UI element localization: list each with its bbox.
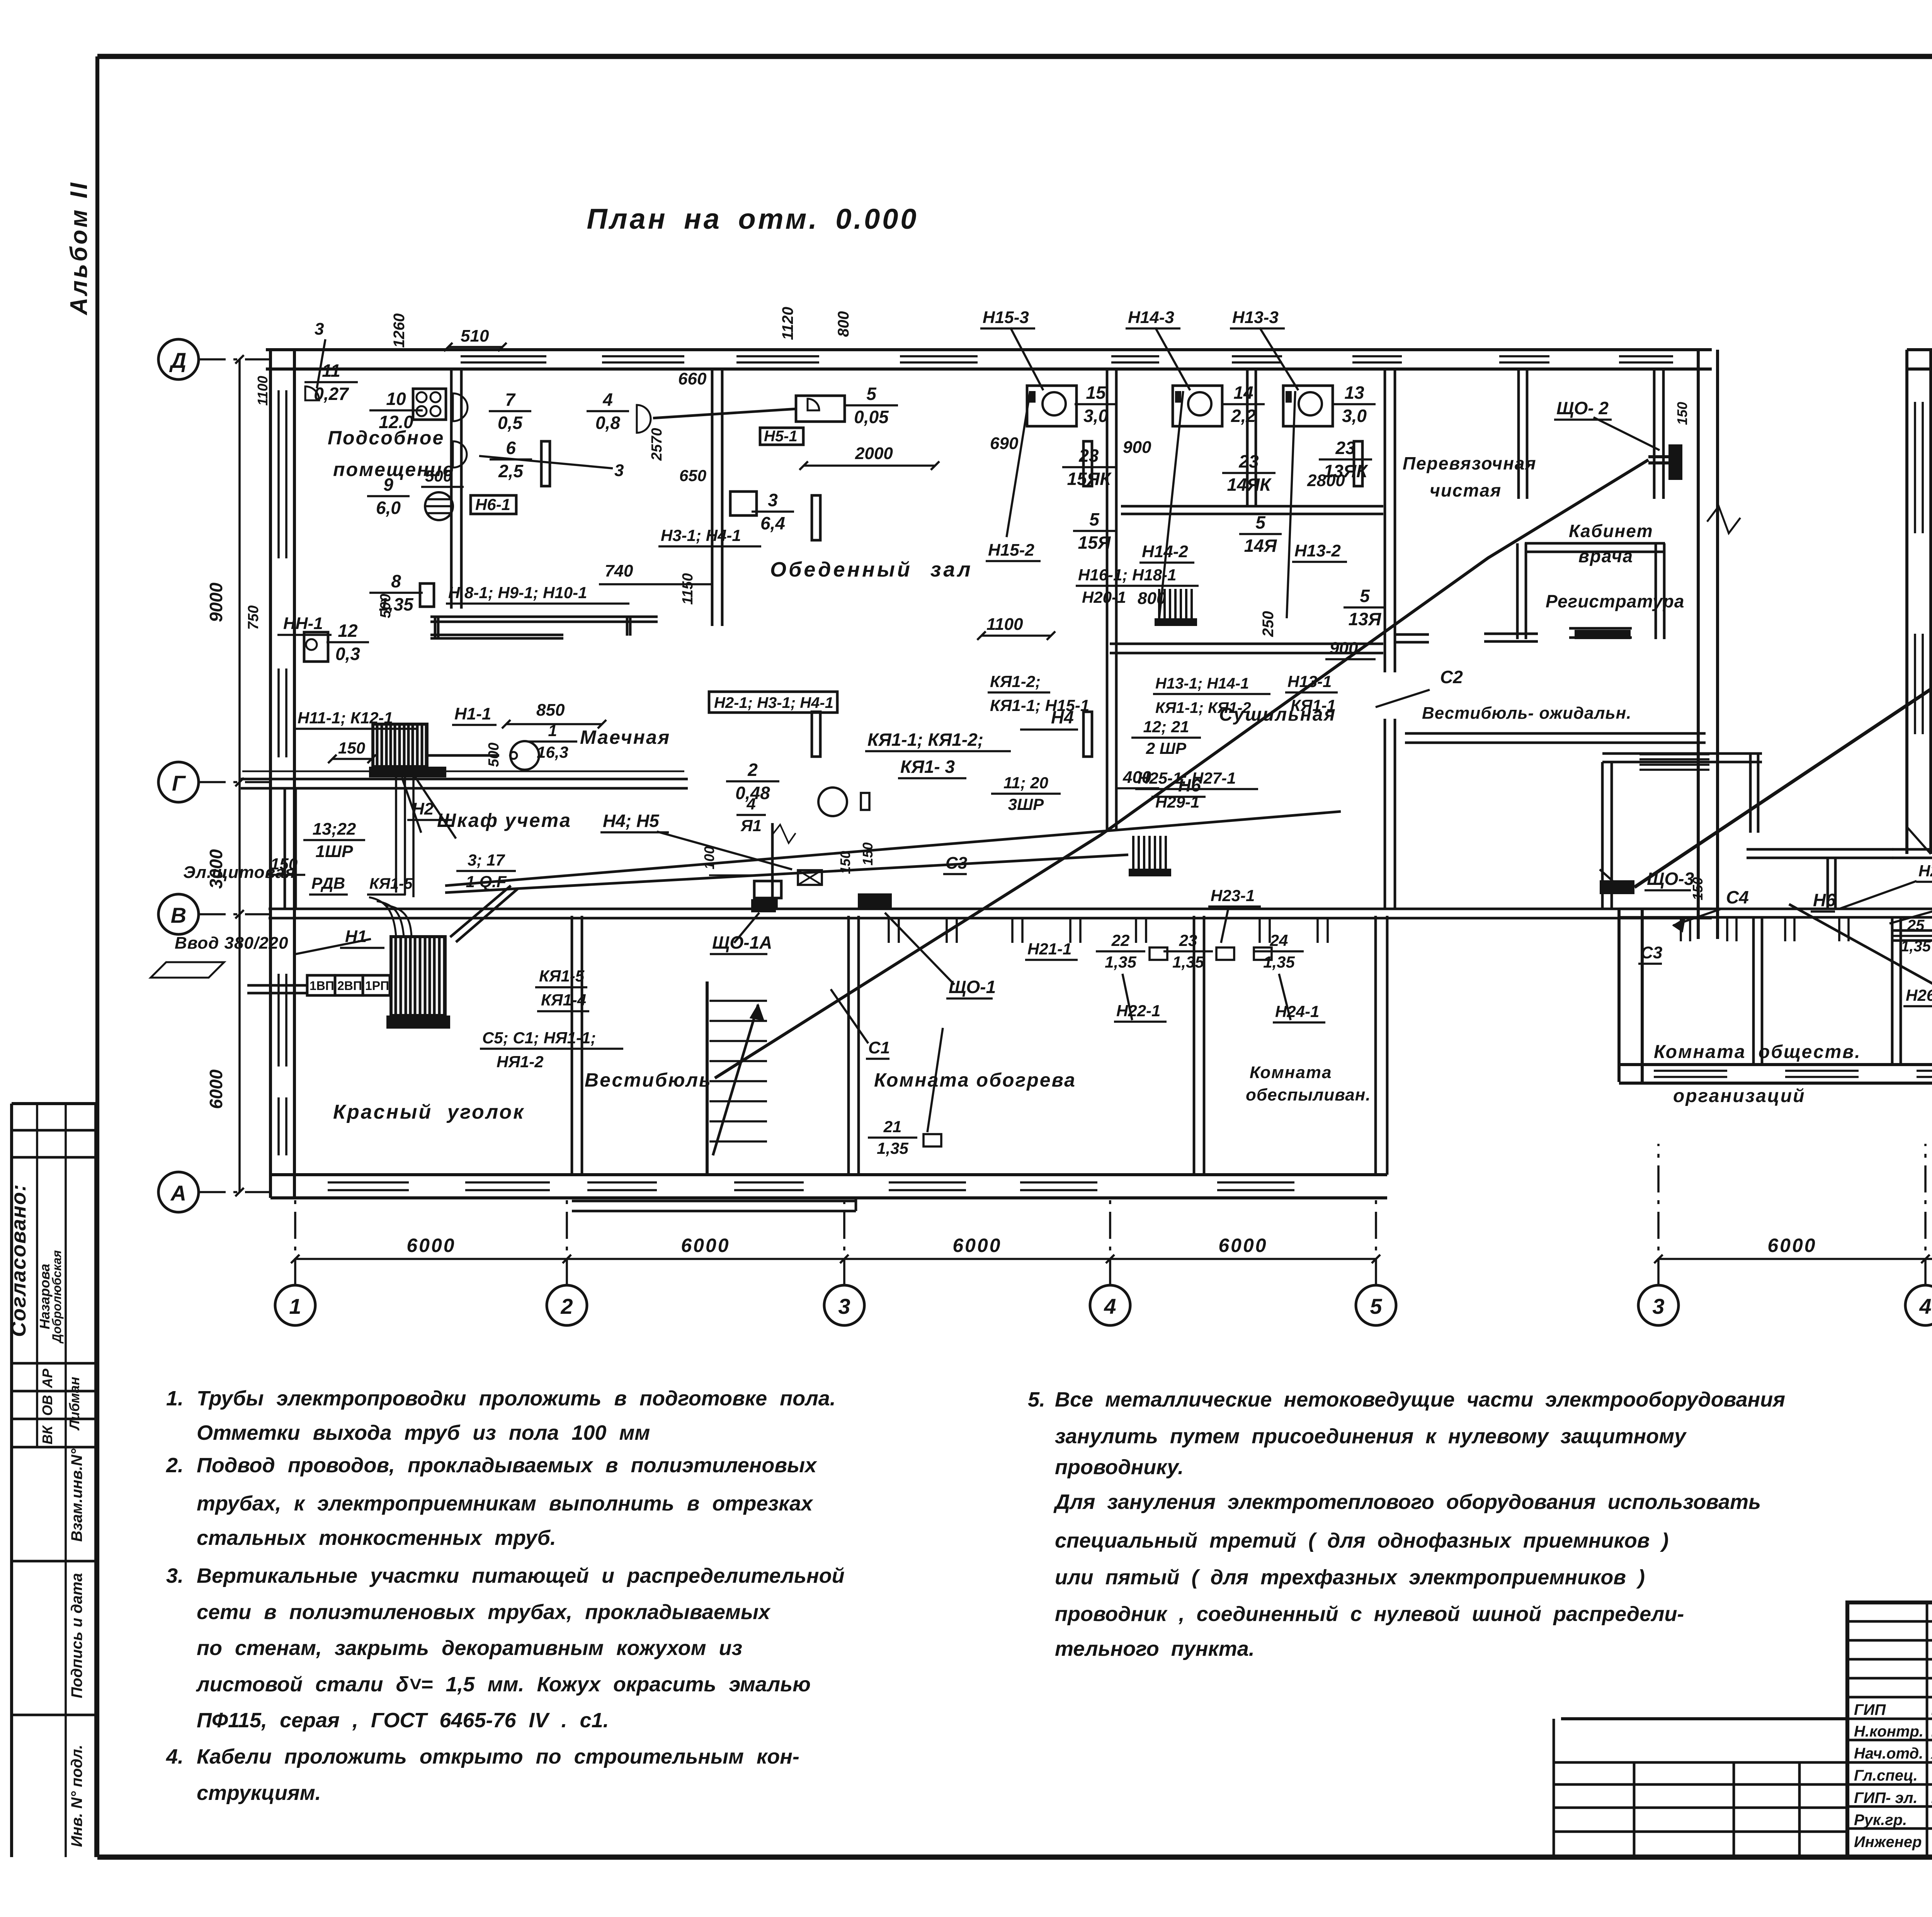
svg-text:500: 500 <box>486 743 502 767</box>
svg-text:Н25-1; Н27-1: Н25-1; Н27-1 <box>1138 769 1236 787</box>
svg-text:С2: С2 <box>1440 667 1463 687</box>
svg-text:750: 750 <box>245 606 262 630</box>
svg-text:6000: 6000 <box>206 1069 226 1109</box>
svg-text:Трубы электропроводки пролож: Трубы электропроводки проложить в подгот… <box>197 1387 836 1410</box>
svg-text:2800: 2800 <box>1307 471 1345 490</box>
svg-text:800: 800 <box>835 311 852 337</box>
svg-text:5: 5 <box>1360 586 1370 606</box>
svg-text:23: 23 <box>1238 451 1259 471</box>
svg-text:С1: С1 <box>868 1038 890 1057</box>
svg-text:Комната: Комната <box>1250 1063 1332 1082</box>
svg-text:Обеденный зал: Обеденный зал <box>770 558 973 581</box>
svg-text:1,35: 1,35 <box>1901 938 1931 955</box>
svg-text:23: 23 <box>1335 438 1355 458</box>
svg-text:Кабинет: Кабинет <box>1569 521 1653 541</box>
svg-text:1ВП: 1ВП <box>310 979 334 993</box>
svg-text:или пятый ( для трехфазн: или пятый ( для трехфазных электроприемн… <box>1055 1566 1645 1589</box>
svg-text:Вертикальные участки питающе: Вертикальные участки питающей и распреде… <box>197 1564 845 1587</box>
svg-text:Н 8-1; Н9-1; Н10-1: Н 8-1; Н9-1; Н10-1 <box>448 583 587 602</box>
svg-text:проводнику.: проводнику. <box>1055 1456 1184 1479</box>
svg-text:11: 11 <box>322 361 340 381</box>
svg-text:100: 100 <box>701 846 717 869</box>
svg-text:3,0: 3,0 <box>1342 406 1367 426</box>
svg-text:650: 650 <box>679 466 706 485</box>
svg-text:900: 900 <box>1330 639 1358 658</box>
svg-text:500: 500 <box>425 467 452 485</box>
svg-text:16,3: 16,3 <box>537 743 568 761</box>
svg-text:150: 150 <box>338 739 365 757</box>
svg-text:КЯ1-1; КЯ1-2: КЯ1-1; КЯ1-2 <box>1155 699 1251 716</box>
svg-text:5: 5 <box>866 384 877 404</box>
svg-text:Н22-1: Н22-1 <box>1116 1002 1160 1020</box>
svg-text:Взам.инв.N°: Взам.инв.N° <box>68 1448 85 1542</box>
svg-text:1РП: 1РП <box>365 979 389 993</box>
svg-text:1,35: 1,35 <box>1105 953 1136 971</box>
svg-text:Комната обществ.: Комната обществ. <box>1654 1042 1861 1062</box>
svg-text:Регистратура: Регистратура <box>1546 591 1685 611</box>
svg-text:Н3-1; Н4-1: Н3-1; Н4-1 <box>661 526 741 544</box>
svg-text:1120: 1120 <box>779 307 796 340</box>
svg-text:1.: 1. <box>166 1387 184 1410</box>
svg-text:струкциям.: струкциям. <box>197 1781 321 1805</box>
svg-text:13Я: 13Я <box>1349 609 1382 629</box>
svg-text:КЯ1- 3: КЯ1- 3 <box>900 757 955 777</box>
svg-text:Н15-3: Н15-3 <box>983 308 1029 327</box>
svg-text:КЯ1-5: КЯ1-5 <box>369 875 413 892</box>
svg-text:3; 17: 3; 17 <box>468 851 505 869</box>
svg-text:ВК: ВК <box>39 1425 55 1444</box>
svg-text:1: 1 <box>548 721 557 740</box>
svg-text:ГИП: ГИП <box>1854 1701 1886 1718</box>
svg-text:0,3: 0,3 <box>335 644 360 664</box>
svg-text:Подвод проводов, прокладыва: Подвод проводов, прокладываемых в полиэт… <box>197 1454 817 1477</box>
svg-text:С3: С3 <box>1641 943 1662 962</box>
svg-text:ЩО-1: ЩО-1 <box>949 977 996 997</box>
svg-text:Добролюбская: Добролюбская <box>50 1250 64 1344</box>
svg-text:сети в полиэтиленовых тру: сети в полиэтиленовых трубах, прокладыва… <box>197 1601 771 1624</box>
svg-text:стальных тонкостенных труб: стальных тонкостенных труб. <box>197 1526 556 1550</box>
svg-text:Рук.гр.: Рук.гр. <box>1854 1812 1907 1829</box>
svg-text:занулить путем присоединен: занулить путем присоединения к нулевому … <box>1055 1425 1687 1448</box>
svg-text:22: 22 <box>1111 931 1130 949</box>
svg-text:2,5: 2,5 <box>498 461 524 481</box>
svg-text:Н6-1: Н6-1 <box>475 495 510 514</box>
svg-text:3,0: 3,0 <box>1083 406 1108 426</box>
svg-text:4.: 4. <box>166 1745 184 1768</box>
svg-text:Н13-1: Н13-1 <box>1287 672 1332 691</box>
svg-text:3.: 3. <box>166 1564 184 1587</box>
svg-text:организаций: организаций <box>1673 1086 1805 1106</box>
svg-text:4: 4 <box>1919 1294 1931 1318</box>
svg-text:14: 14 <box>1233 383 1253 403</box>
svg-text:Гл.спец.: Гл.спец. <box>1854 1767 1918 1784</box>
svg-text:ЩО-3: ЩО-3 <box>1647 869 1694 889</box>
svg-text:ЩО- 2: ЩО- 2 <box>1556 398 1609 418</box>
svg-text:6000: 6000 <box>406 1235 456 1256</box>
svg-text:С4: С4 <box>1726 887 1749 907</box>
svg-text:А: А <box>170 1181 186 1205</box>
svg-text:КЯ1-1; КЯ1-2;: КЯ1-1; КЯ1-2; <box>867 730 983 750</box>
svg-text:Я1: Я1 <box>740 816 762 835</box>
svg-text:Н5-1: Н5-1 <box>764 428 798 445</box>
svg-text:12: 12 <box>338 621 358 641</box>
svg-text:1150: 1150 <box>680 573 696 605</box>
svg-text:3: 3 <box>315 320 324 338</box>
svg-text:150: 150 <box>860 842 876 866</box>
svg-text:12; 21: 12; 21 <box>1143 718 1189 736</box>
svg-text:13: 13 <box>1344 383 1364 403</box>
svg-text:специальный третий ( для: специальный третий ( для однофазных прие… <box>1055 1529 1668 1552</box>
svg-text:Согласовано:: Согласовано: <box>7 1184 30 1337</box>
svg-text:Н1-1: Н1-1 <box>454 704 491 723</box>
svg-text:25: 25 <box>1907 917 1925 934</box>
svg-text:9: 9 <box>383 475 393 495</box>
svg-text:Н6: Н6 <box>1813 890 1836 910</box>
svg-text:ГИП- эл.: ГИП- эл. <box>1854 1789 1918 1806</box>
svg-text:11; 20: 11; 20 <box>1003 774 1048 792</box>
svg-text:23: 23 <box>1078 446 1099 466</box>
svg-text:150: 150 <box>837 851 853 874</box>
svg-text:2: 2 <box>747 760 758 780</box>
svg-text:Инв. N° подл.: Инв. N° подл. <box>68 1745 85 1847</box>
svg-text:0,05: 0,05 <box>854 407 889 427</box>
svg-text:АР: АР <box>39 1368 55 1388</box>
svg-text:850: 850 <box>536 701 565 720</box>
svg-text:6000: 6000 <box>1767 1235 1816 1256</box>
svg-text:Н21-1: Н21-1 <box>1027 940 1071 958</box>
svg-text:ПФ115, серая , ГОСТ 646: ПФ115, серая , ГОСТ 6465-76 IV . с1. <box>197 1709 609 1732</box>
svg-text:Комната обогрева: Комната обогрева <box>874 1069 1076 1091</box>
svg-text:Н26-1: Н26-1 <box>1906 986 1932 1004</box>
svg-text:4: 4 <box>746 795 755 813</box>
svg-text:1260: 1260 <box>391 313 408 348</box>
svg-text:2,2: 2,2 <box>1231 406 1256 426</box>
svg-text:5: 5 <box>1370 1294 1382 1318</box>
svg-text:2.: 2. <box>166 1454 184 1477</box>
svg-text:5.: 5. <box>1028 1388 1045 1411</box>
svg-text:23: 23 <box>1179 931 1197 949</box>
svg-text:9000: 9000 <box>206 582 226 622</box>
svg-text:0,5: 0,5 <box>498 413 523 433</box>
svg-text:15Я: 15Я <box>1078 532 1111 553</box>
svg-text:250: 250 <box>1260 611 1277 637</box>
svg-text:КЯ1-1: КЯ1-1 <box>1291 696 1336 714</box>
svg-text:800: 800 <box>1138 589 1166 608</box>
svg-text:6,0: 6,0 <box>376 498 401 518</box>
svg-text:1100: 1100 <box>255 376 270 406</box>
svg-text:В: В <box>171 903 186 927</box>
svg-text:Н16-1; Н18-1: Н16-1; Н18-1 <box>1078 566 1176 584</box>
svg-text:С5; С1; НЯ1-1;: С5; С1; НЯ1-1; <box>482 1029 596 1047</box>
svg-text:2000: 2000 <box>855 444 893 463</box>
svg-text:Н13-1; Н14-1: Н13-1; Н14-1 <box>1155 675 1249 692</box>
svg-text:Маечная: Маечная <box>580 726 670 748</box>
svg-text:КЯ1-1; Н15-1: КЯ1-1; Н15-1 <box>990 696 1089 714</box>
svg-text:1,35: 1,35 <box>877 1139 908 1157</box>
svg-text:Альбом II: Альбом II <box>66 180 92 316</box>
svg-text:8: 8 <box>391 571 401 591</box>
svg-text:150: 150 <box>270 855 298 873</box>
svg-text:3: 3 <box>614 461 624 480</box>
svg-text:690: 690 <box>990 434 1019 453</box>
svg-text:ОВ: ОВ <box>39 1395 55 1416</box>
svg-text:чистая: чистая <box>1430 480 1502 500</box>
svg-text:Кабели проложить открыто: Кабели проложить открыто по строительным… <box>197 1745 799 1768</box>
svg-text:2: 2 <box>560 1294 573 1318</box>
svg-text:150: 150 <box>1690 877 1706 900</box>
svg-text:13;22: 13;22 <box>313 820 356 839</box>
svg-text:Г: Г <box>172 771 186 795</box>
svg-text:КЯ1-4: КЯ1-4 <box>541 991 586 1009</box>
svg-text:2570: 2570 <box>649 428 665 461</box>
svg-text:0,8: 0,8 <box>595 413 620 433</box>
svg-text:Нач.отд.: Нач.отд. <box>1854 1745 1923 1762</box>
svg-text:1ШР: 1ШР <box>316 842 354 861</box>
svg-text:Вестибюль- ожидальн.: Вестибюль- ожидальн. <box>1422 704 1631 723</box>
svg-text:листовой стали δ˅= 1,5 мм.: листовой стали δ˅= 1,5 мм. Кожух окрасит… <box>196 1673 811 1696</box>
svg-text:Н.контр.: Н.контр. <box>1854 1723 1923 1740</box>
svg-text:10: 10 <box>386 389 406 409</box>
svg-text:3: 3 <box>838 1294 850 1318</box>
svg-text:150: 150 <box>1674 402 1690 425</box>
svg-text:3: 3 <box>1652 1294 1664 1318</box>
svg-text:3ШР: 3ШР <box>1008 795 1044 813</box>
svg-text:Перевязочная: Перевязочная <box>1403 453 1537 473</box>
svg-text:6000: 6000 <box>681 1235 730 1256</box>
svg-text:5: 5 <box>1089 509 1100 529</box>
svg-text:1,35: 1,35 <box>1172 953 1204 971</box>
svg-text:Шкаф учета: Шкаф учета <box>437 810 571 831</box>
svg-text:1,35: 1,35 <box>1263 953 1295 971</box>
svg-text:6000: 6000 <box>1218 1235 1267 1256</box>
svg-text:7: 7 <box>505 390 516 410</box>
svg-text:21: 21 <box>883 1118 902 1136</box>
svg-text:по стенам, закрыть декора: по стенам, закрыть декоративным кожухом … <box>197 1636 742 1660</box>
svg-text:обеспыливан.: обеспыливан. <box>1246 1085 1371 1104</box>
svg-text:Н29-1: Н29-1 <box>1918 862 1932 880</box>
svg-text:3: 3 <box>768 490 778 510</box>
svg-text:Н14-2: Н14-2 <box>1142 542 1188 561</box>
svg-text:КЯ1-5: КЯ1-5 <box>539 967 585 985</box>
svg-text:Н29-1: Н29-1 <box>1155 793 1199 811</box>
svg-text:Д: Д <box>169 348 186 373</box>
svg-text:4: 4 <box>602 390 613 410</box>
svg-text:Красный уголок: Красный уголок <box>333 1101 525 1123</box>
svg-text:900: 900 <box>1123 438 1151 457</box>
svg-text:План на отм. 0.000: План на отм. 0.000 <box>587 203 918 235</box>
svg-text:трубах, к электроприемникам: трубах, к электроприемникам выполнить в … <box>197 1492 813 1515</box>
svg-text:Н23-1: Н23-1 <box>1211 886 1255 905</box>
svg-text:Н2-1; Н3-1; Н4-1: Н2-1; Н3-1; Н4-1 <box>714 694 833 711</box>
svg-text:2 ШР: 2 ШР <box>1146 739 1187 757</box>
svg-text:Все металлические нетоковеду: Все металлические нетоковедущие части эл… <box>1055 1388 1785 1411</box>
svg-text:Подпись и дата: Подпись и дата <box>68 1573 85 1698</box>
svg-text:врача: врача <box>1578 546 1633 566</box>
svg-text:Н20-1: Н20-1 <box>1082 588 1126 606</box>
svg-text:НЯ1-2: НЯ1-2 <box>497 1053 544 1071</box>
svg-text:Н13-3: Н13-3 <box>1232 308 1279 327</box>
svg-text:5: 5 <box>1255 512 1266 532</box>
svg-text:4: 4 <box>1104 1294 1116 1318</box>
svg-text:Н4: Н4 <box>1051 707 1074 727</box>
svg-text:510: 510 <box>461 327 489 345</box>
svg-text:Н11-1; К12-1: Н11-1; К12-1 <box>298 709 393 727</box>
svg-text:Ввод 380/220: Ввод 380/220 <box>175 934 289 953</box>
svg-text:Н14-3: Н14-3 <box>1128 308 1174 327</box>
svg-text:Для зануления электротеплово: Для зануления электротеплового оборудова… <box>1053 1490 1761 1514</box>
svg-text:НН-1: НН-1 <box>283 614 323 633</box>
svg-text:740: 740 <box>605 561 633 580</box>
svg-text:1100: 1100 <box>986 615 1023 634</box>
svg-text:1: 1 <box>289 1294 301 1318</box>
svg-text:15ЯК: 15ЯК <box>1067 469 1112 489</box>
svg-text:14Я: 14Я <box>1244 536 1277 556</box>
svg-text:проводник , соединенный с н: проводник , соединенный с нулевой шиной … <box>1055 1602 1684 1626</box>
svg-text:Вестибюль: Вестибюль <box>585 1069 712 1091</box>
svg-text:ЩО-1А: ЩО-1А <box>712 932 772 953</box>
svg-text:12.0: 12.0 <box>379 412 413 432</box>
svg-text:14ЯК: 14ЯК <box>1227 475 1272 495</box>
svg-text:660: 660 <box>678 369 707 388</box>
svg-text:тельного пункта.: тельного пункта. <box>1055 1637 1255 1660</box>
svg-text:Отметки выхода труб из пол: Отметки выхода труб из пола 100 мм <box>197 1421 650 1444</box>
svg-text:Либман: Либман <box>66 1377 82 1431</box>
svg-text:Н13-2: Н13-2 <box>1294 541 1341 560</box>
svg-text:Н24-1: Н24-1 <box>1275 1002 1319 1021</box>
svg-text:1,35: 1,35 <box>379 594 414 614</box>
svg-text:6: 6 <box>506 438 516 458</box>
svg-text:КЯ1-2;: КЯ1-2; <box>990 672 1041 691</box>
svg-text:6,4: 6,4 <box>760 513 785 533</box>
svg-text:6000: 6000 <box>952 1235 1002 1256</box>
svg-text:Н15-2: Н15-2 <box>988 541 1034 560</box>
svg-text:15: 15 <box>1086 383 1106 403</box>
svg-text:2ВП: 2ВП <box>337 979 362 993</box>
svg-text:РДВ: РДВ <box>311 874 345 892</box>
svg-text:Н4; Н5: Н4; Н5 <box>603 811 660 831</box>
svg-text:Инженер: Инженер <box>1854 1834 1922 1851</box>
